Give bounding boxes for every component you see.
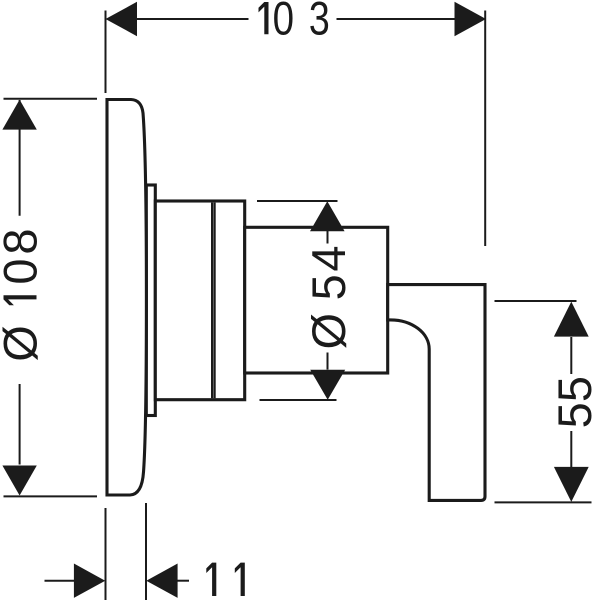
svg-text:3: 3 xyxy=(309,0,330,45)
svg-text:5: 5 xyxy=(548,376,594,402)
svg-text:Ø: Ø xyxy=(302,313,355,350)
svg-text:0: 0 xyxy=(273,0,294,45)
svg-text:5: 5 xyxy=(302,274,355,300)
svg-text:4: 4 xyxy=(302,245,355,271)
svg-text:Ø: Ø xyxy=(0,325,47,362)
svg-text:8: 8 xyxy=(0,228,47,254)
svg-text:5: 5 xyxy=(548,402,594,428)
svg-text:0: 0 xyxy=(0,258,47,284)
